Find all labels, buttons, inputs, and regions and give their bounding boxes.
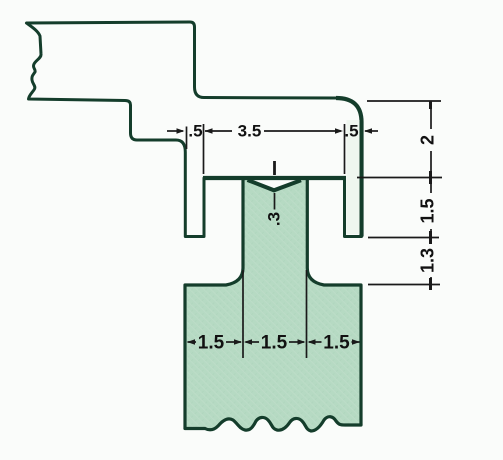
arrowheads xyxy=(177,128,373,344)
svg-text:2: 2 xyxy=(418,135,438,145)
3.5 left arrow pointing left, tip at 204.5 xyxy=(205,128,213,133)
upper member outline (white interior, stepped, jagged left break edge) xyxy=(27,22,362,237)
right column extension lines xyxy=(367,100,441,102)
weld face line (thick) xyxy=(203,176,346,180)
wavy bottom break line xyxy=(185,417,361,431)
3.5 right arrow pointing right, tip at 343 xyxy=(335,128,343,133)
svg-text:3.5: 3.5 xyxy=(238,122,262,141)
right outer edge emphasis xyxy=(336,98,362,237)
svg-text:.5: .5 xyxy=(188,122,202,141)
svg-text:.3: .3 xyxy=(265,212,284,226)
top .5 left: arrow pointing right, tip at 184.5 xyxy=(177,128,185,133)
svg-text:1.5: 1.5 xyxy=(418,198,438,223)
V notch in stem top xyxy=(248,180,302,190)
ticks on right dim line xyxy=(429,101,432,290)
bottom dims arrows xyxy=(187,339,195,344)
bottom extension lines from stem edges xyxy=(242,270,244,358)
svg-text:1.5: 1.5 xyxy=(323,333,350,354)
right leg interior tint xyxy=(347,120,360,234)
svg-text:1.3: 1.3 xyxy=(418,248,438,273)
right column vertical dim line x=431 with gaps for labels xyxy=(430,101,432,129)
svg-text:1.5: 1.5 xyxy=(198,333,225,354)
.3 leader: tick above face and line below V xyxy=(273,161,276,175)
svg-text:1.5: 1.5 xyxy=(261,333,288,354)
bottom dim line segments, y=342 xyxy=(188,341,197,343)
top dim line tails and segments, y=131 xyxy=(167,130,183,132)
lower member (green filled block with stem) xyxy=(185,179,361,431)
top .5 right: arrow pointing left, tip at 364 xyxy=(364,128,372,133)
lower member outline: stem sides, fillets, shoulders, block sides, wavy break bottom xyxy=(185,179,243,429)
extension lines top xyxy=(186,127,188,150)
svg-text:.5: .5 xyxy=(344,122,358,141)
